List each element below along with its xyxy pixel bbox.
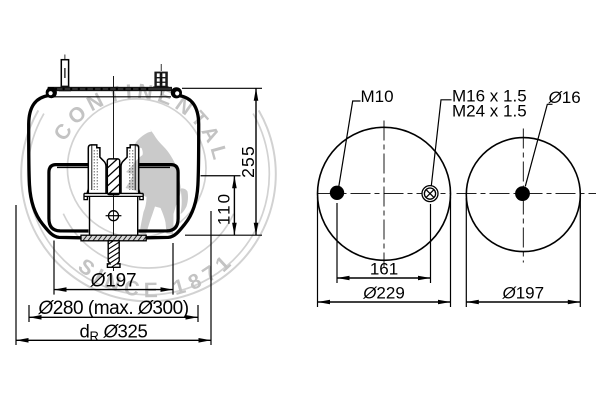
dimension dR dia325 bbox=[16, 339, 211, 341]
svg-text:dR Ø325: dR Ø325 bbox=[80, 321, 148, 344]
leader M16/M24 bbox=[431, 100, 451, 186]
fitting symbol bbox=[422, 186, 438, 202]
piston castle left half bbox=[88, 145, 106, 194]
dimension 255 bbox=[255, 88, 257, 235]
svg-text:Ø197: Ø197 bbox=[501, 284, 544, 303]
extension lines 161 bbox=[336, 203, 338, 283]
svg-text:Ø229: Ø229 bbox=[362, 284, 405, 303]
top stud M10 bbox=[64, 55, 66, 61]
leader M10 bbox=[339, 101, 361, 187]
extension lines dia325 bbox=[15, 205, 17, 345]
extension lines dia229 bbox=[317, 197, 319, 307]
circle dia197 bbox=[466, 138, 580, 252]
vertical centerline bbox=[522, 129, 524, 263]
vertical centerline bbox=[383, 121, 385, 268]
bottom stud hatched bbox=[104, 234, 124, 272]
piston flange bbox=[84, 193, 87, 199]
svg-text:110: 110 bbox=[215, 192, 234, 225]
castle tower feet bbox=[86, 187, 88, 194]
svg-text:161: 161 bbox=[370, 260, 398, 279]
dimension 110 bbox=[233, 176, 235, 235]
watermark horse bbox=[126, 129, 189, 235]
horizontal centerline bbox=[318, 193, 451, 195]
extension line top 110 bbox=[201, 175, 241, 177]
rolling lobe left bbox=[49, 165, 89, 231]
vent hole symbol bbox=[109, 211, 119, 221]
dimension dia197 bbox=[54, 289, 173, 291]
center hole dot dia16 bbox=[515, 186, 530, 201]
watermark inner circle bbox=[67, 99, 206, 238]
top plate bbox=[48, 87, 172, 91]
svg-text:Ø197: Ø197 bbox=[90, 271, 137, 292]
piston castle right half bbox=[121, 145, 139, 194]
dimension dia229 bbox=[318, 301, 451, 303]
watermark seal bbox=[21, 80, 276, 302]
svg-text:M24 x 1.5: M24 x 1.5 bbox=[452, 101, 527, 120]
air fitting bbox=[153, 86, 168, 91]
extension lines dia197 right bbox=[465, 198, 467, 307]
svg-text:M10: M10 bbox=[361, 87, 394, 106]
watermark text SINCE 1871 bbox=[77, 257, 240, 298]
watermark outer circle bbox=[21, 110, 276, 301]
piston body walls bbox=[89, 196, 91, 235]
bellows top edge bbox=[53, 96, 171, 98]
extension lines dia197 bbox=[53, 241, 55, 295]
svg-text:Ø16: Ø16 bbox=[548, 88, 581, 107]
watermark third circle bbox=[28, 114, 270, 295]
dimension 161 bbox=[337, 277, 431, 279]
svg-text:255: 255 bbox=[238, 145, 258, 178]
horizontal centerline bbox=[457, 193, 597, 195]
leader dia16 bbox=[525, 104, 552, 186]
bottom plate bbox=[81, 234, 148, 242]
bumper rod hatched bbox=[103, 152, 125, 208]
watermark middle circle bbox=[63, 214, 233, 268]
extension lines dia280 bbox=[28, 305, 30, 322]
svg-text:Ø280 (max. Ø300): Ø280 (max. Ø300) bbox=[37, 298, 188, 319]
air fitting centerline bbox=[160, 64, 162, 96]
left bead bbox=[46, 87, 57, 98]
dimension dia280 bbox=[29, 316, 198, 318]
M10 stud dot bbox=[330, 186, 344, 200]
watermark text CONTINENTAL bbox=[65, 99, 214, 163]
rolling lobe right bbox=[139, 165, 179, 231]
extension line top 255 bbox=[182, 87, 262, 89]
centerline left view bbox=[113, 76, 115, 271]
bellows outline bbox=[29, 96, 82, 238]
castle tower inner walls bbox=[91, 146, 93, 191]
circle dia229 bbox=[318, 127, 451, 260]
dimension dia197 right bbox=[466, 301, 580, 303]
right bead bbox=[171, 87, 182, 98]
extension line bottom 255/110 bbox=[185, 234, 262, 236]
